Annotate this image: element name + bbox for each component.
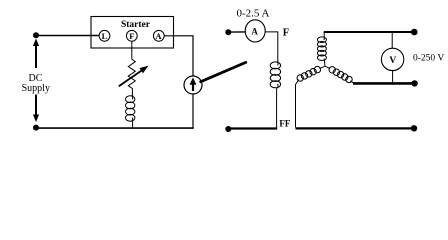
wire top phase to terminal xyxy=(324,31,414,33)
node field supply + (dot left of ammeter) xyxy=(225,29,231,35)
alternator star winding: right phase coil xyxy=(325,66,354,83)
svg-text:L: L xyxy=(102,31,108,41)
wire field coil to FF rail xyxy=(276,88,278,127)
up arrow (supply polarity) xyxy=(33,39,39,69)
svg-text:A: A xyxy=(155,31,162,41)
svg-text:FF: FF xyxy=(279,118,290,128)
rheostat arrow xyxy=(119,66,149,87)
wire bottom rail left circuit xyxy=(36,127,194,129)
svg-text:0-250 V: 0-250 V xyxy=(413,53,444,63)
svg-text:A: A xyxy=(251,26,258,36)
wire voltmeter stem up xyxy=(391,32,393,48)
svg-text:0-2.5 A: 0-2.5 A xyxy=(237,8,270,20)
wire F terminal down xyxy=(131,41,133,59)
terminal F xyxy=(126,30,137,41)
wire zigzag to coil xyxy=(131,88,133,97)
wire left phase to bottom terminal xyxy=(296,127,415,129)
wire voltmeter stem down xyxy=(392,70,394,83)
wire A terminal to armature branch xyxy=(164,36,193,76)
alternator star winding: left phase coil xyxy=(296,66,326,127)
wire dot to ammeter xyxy=(228,31,245,33)
svg-text:F: F xyxy=(129,31,134,41)
svg-text:V: V xyxy=(389,56,396,66)
wire top-left dot to starter L xyxy=(36,35,100,37)
inductor shunt field coil xyxy=(126,95,135,129)
node terminal top-right xyxy=(411,29,418,36)
svg-text:Supply: Supply xyxy=(22,83,50,94)
node field supply - (bottom dot) xyxy=(225,126,231,132)
node negative supply terminal (bottom-left) xyxy=(33,125,39,131)
node terminal bottom-right xyxy=(411,125,417,131)
switch blade from armature circle xyxy=(201,62,246,81)
starter box xyxy=(91,17,174,49)
terminal L xyxy=(99,30,110,41)
voltmeter V1 xyxy=(381,48,403,70)
svg-text:Starter: Starter xyxy=(121,20,151,30)
wire ammeter to F terminal corner xyxy=(265,32,278,62)
alternator star winding: top phase coil xyxy=(317,32,326,66)
ammeter A1 xyxy=(245,20,265,42)
svg-text:F: F xyxy=(283,28,289,39)
node terminal middle-right xyxy=(411,80,417,86)
wire FF rail to field supply - dot xyxy=(228,127,277,129)
wire armature to bottom rail xyxy=(192,94,194,129)
down arrow (supply polarity) xyxy=(33,95,39,123)
node positive supply terminal (top-left) xyxy=(33,32,39,38)
wire right phase to middle terminal xyxy=(353,82,412,85)
inductor alternator field winding F-FF xyxy=(270,61,280,88)
motor armature circle with arrow xyxy=(184,76,202,94)
resistor field rheostat (zigzag) xyxy=(128,59,135,88)
terminal A xyxy=(153,30,164,41)
